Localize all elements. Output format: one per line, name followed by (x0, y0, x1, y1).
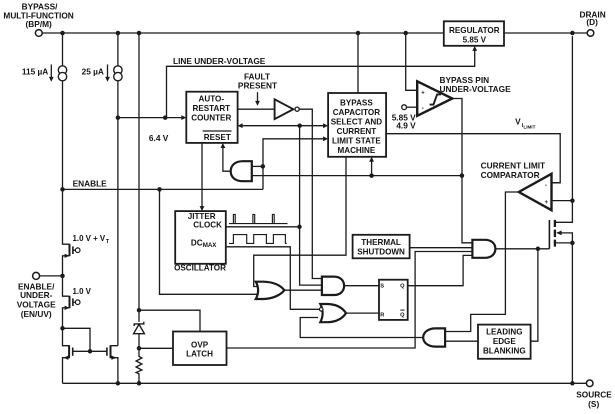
svg-text:SHUTDOWN: SHUTDOWN (357, 248, 405, 257)
zener diode VR1 (134, 322, 145, 349)
svg-text:R: R (380, 313, 384, 319)
wire OVP latch top input (139, 310, 200, 331)
node dot ENABLE at left bus (60, 187, 65, 192)
block THERMAL SHUTDOWN U4 (353, 235, 410, 258)
transistor Q2 PMOS 1.0V (63, 276, 92, 328)
label arrow FAULT PRESENT (238, 71, 277, 105)
node dot zener OVP tap (137, 308, 142, 313)
latch U7 SR flip-flop (379, 280, 408, 320)
wire oscillator DCMAX output (226, 247, 319, 309)
svg-text:5.85 V: 5.85 V (463, 35, 487, 44)
wire clock net riser and AND3 mid input (300, 126, 322, 285)
svg-text:1.0 V + V: 1.0 V + V (73, 234, 106, 243)
node dot top bus at zener branch (137, 31, 142, 36)
svg-text:LIMIT: LIMIT (523, 125, 535, 130)
wire AND3 output to latch S (344, 285, 379, 287)
wire EN/UV to left bus (39, 275, 62, 277)
svg-text:Q: Q (400, 283, 405, 289)
block AUTO-RESTART COUNTER U1 (186, 92, 237, 143)
node dot mirror gate branch (60, 326, 65, 331)
wire oscillator clock output (226, 226, 300, 228)
wire gate node down to LEB (531, 249, 538, 341)
node dot mirror gates (88, 349, 93, 354)
transistor Q5 output MOSFET (549, 36, 572, 383)
svg-text:COMPARATOR: COMPARATOR (481, 170, 540, 180)
svg-text:OVP: OVP (191, 340, 209, 349)
wire counter to inverter (238, 108, 275, 110)
svg-text:LATCH: LATCH (186, 350, 213, 359)
block LEADING EDGE BLANKING U6 (478, 325, 531, 359)
svg-text:UNDER-: UNDER- (20, 290, 53, 300)
block OSCILLATOR U3 (174, 211, 226, 273)
svg-text:OSCILLATOR: OSCILLATOR (174, 264, 226, 273)
svg-text:Q: Q (400, 313, 405, 319)
gate AND A3 gate-drive (4-input) (472, 240, 495, 258)
inverter U8 fault present (275, 99, 300, 119)
svg-text:MACHINE: MACHINE (338, 146, 376, 155)
gate OR O2 (lower with inverted input) (319, 304, 346, 322)
svg-text:SELECT AND: SELECT AND (331, 118, 383, 127)
op-amp U9 bypass pin under-voltage comparator (417, 75, 511, 116)
wire inverter output to AND3 top input (299, 109, 322, 278)
transistor Q3 NMOS mirror left (63, 328, 73, 383)
node dot resistor to source rail (137, 381, 142, 386)
wire VILIMIT net (386, 117, 560, 183)
svg-text:+: + (545, 200, 549, 206)
svg-text:115 µA: 115 µA (22, 67, 48, 77)
svg-text:REGULATOR: REGULATOR (449, 26, 500, 35)
resistor R1 (136, 348, 142, 383)
wire counter to oscillator (200, 143, 205, 211)
node dot counter-SM line (297, 123, 302, 128)
node dot top bus at 115uA branch (60, 31, 65, 36)
svg-text:25 µA: 25 µA (82, 67, 104, 77)
current source I2 25uA (82, 33, 123, 346)
waveform clock pulses (229, 214, 288, 223)
svg-text:RESTART: RESTART (192, 104, 230, 113)
svg-text:1.0 V: 1.0 V (73, 287, 92, 296)
wire reset AND to counter RESET (221, 143, 231, 171)
terminal UV reference (392, 105, 418, 131)
transistor Q4 NMOS mirror right (107, 345, 118, 383)
block OVP LATCH U5 (173, 332, 227, 366)
wire ENABLE down to OR1 input (160, 189, 260, 294)
terminal SOURCE (576, 380, 612, 409)
svg-text:DC: DC (191, 238, 203, 247)
svg-text:-: - (422, 105, 424, 112)
svg-text:UNDER-VOLTAGE: UNDER-VOLTAGE (440, 84, 512, 94)
waveform DCMAX square wave (229, 235, 287, 244)
wire counter input from 25uA sense node (118, 115, 186, 143)
current source I1 115uA (22, 33, 67, 189)
wire state machine top to bus (357, 33, 359, 93)
svg-text:LIMIT STATE: LIMIT STATE (332, 137, 381, 146)
svg-text:EDGE: EDGE (493, 337, 517, 346)
wire gate drive to MOSFET (495, 248, 549, 250)
node dot top bus at 25uA branch (116, 31, 121, 36)
transistor Q1 PMOS 1.0V+VT (63, 189, 110, 276)
svg-text:COUNTER: COUNTER (191, 113, 231, 122)
gate AND A1 reset (left pointing) (231, 161, 252, 181)
wire ENABLE net (63, 178, 264, 189)
svg-text:6.4 V: 6.4 V (149, 133, 169, 143)
node dot drain bus (570, 31, 575, 36)
svg-text:ENABLE: ENABLE (73, 178, 108, 188)
wire CL comparator minus input (552, 182, 561, 184)
node dot clock net (297, 225, 302, 230)
svg-text:CLOCK: CLOCK (193, 221, 222, 230)
node dot top bus at state machine branch (356, 31, 361, 36)
wire mirror gates (73, 350, 107, 352)
node dot sense line at 25uA (116, 115, 121, 120)
svg-text:S: S (380, 283, 384, 289)
block REGULATOR 5.85V (444, 21, 504, 46)
svg-text:AUTO-: AUTO- (199, 95, 225, 104)
wire latch Q output to gate AND (408, 255, 473, 285)
terminal DRAIN (579, 9, 605, 36)
node dot mirror source to rail (116, 381, 121, 386)
node dot reset line at UV comp output (460, 173, 465, 178)
wire CL comparator plus input (552, 200, 573, 202)
wire CL comparator output to LEB AND (445, 192, 519, 332)
svg-text:RESET: RESET (204, 133, 231, 142)
svg-text:CAPACITOR: CAPACITOR (333, 108, 381, 117)
wire counter to state machine bidirectional (238, 123, 329, 128)
svg-text:PRESENT: PRESENT (238, 80, 277, 90)
op-amp U10 current limit comparator (left pointing) (481, 161, 552, 211)
wire OVP latch left input (139, 347, 173, 349)
wire LEB AND output to OR2 input (300, 318, 423, 338)
wire UV comparator reset line (252, 157, 462, 176)
wire thermal shutdown output (410, 247, 473, 249)
wire state machine feedback to OR1 top input (254, 157, 346, 287)
node dot gate node (536, 247, 541, 252)
svg-text:CURRENT: CURRENT (337, 127, 377, 136)
node dot MOSFET source body tie (570, 241, 575, 246)
gate AND A2 (3-input to latch S) (322, 277, 344, 295)
wire enable to state machine (263, 136, 328, 189)
svg-text:(S): (S) (588, 399, 599, 409)
node dot CL comp plus on drain sense (570, 198, 575, 203)
node dot sense line at LUV (163, 115, 168, 120)
wire UV comparator output (452, 99, 472, 243)
svg-text:MAX: MAX (203, 242, 218, 249)
svg-text:THERMAL: THERMAL (361, 238, 401, 247)
wire UV comparator plus input from bus (406, 33, 418, 90)
node dot reset line at SM arrow (369, 173, 374, 178)
wire zener branch upper (138, 33, 140, 322)
svg-text:(EN/UV): (EN/UV) (21, 309, 52, 319)
node dot ENABLE at OR branch (157, 187, 162, 192)
svg-text:BYPASS: BYPASS (340, 99, 373, 108)
node dot enable riser at AND input (261, 164, 266, 169)
node dot zener resistor tap (137, 346, 142, 351)
node dot top bus at UV comparator branch (403, 31, 408, 36)
wire reset AND top input (252, 165, 263, 167)
wire OVP feedback to gate AND (227, 252, 473, 349)
svg-text:LINE UNDER-VOLTAGE: LINE UNDER-VOLTAGE (173, 56, 266, 66)
svg-text:(D): (D) (586, 17, 598, 27)
svg-text:BLANKING: BLANKING (483, 346, 526, 355)
svg-text:4.9 V: 4.9 V (396, 121, 416, 131)
svg-text:-: - (545, 183, 547, 189)
terminal EN/UV (17, 272, 56, 319)
block BYPASS CAPACITOR SELECT AND CURRENT LIMIT STATE MACHINE U2 (328, 93, 386, 157)
wire LEB output to AND input (445, 340, 478, 342)
gate AND A4 LEB (left pointing) (423, 328, 445, 346)
wire line under-voltage net (167, 46, 478, 118)
node dot rail at MOSFET source (570, 381, 575, 386)
wire mirror diode connection (63, 328, 91, 351)
terminal BP/M (3, 2, 73, 37)
svg-text:(BP/M): (BP/M) (26, 19, 53, 29)
wire OR1 output to AND3 (284, 289, 322, 291)
gate OR O1 (upper) (256, 282, 285, 299)
svg-text:V: V (515, 117, 521, 127)
svg-text:+: + (421, 91, 425, 97)
node dot EN/UV tap (60, 274, 65, 279)
wire BP/M top bus (42, 32, 588, 34)
wire source rail (63, 382, 587, 384)
wire OR2 output to latch R (346, 312, 379, 314)
svg-text:LEADING: LEADING (486, 327, 522, 336)
